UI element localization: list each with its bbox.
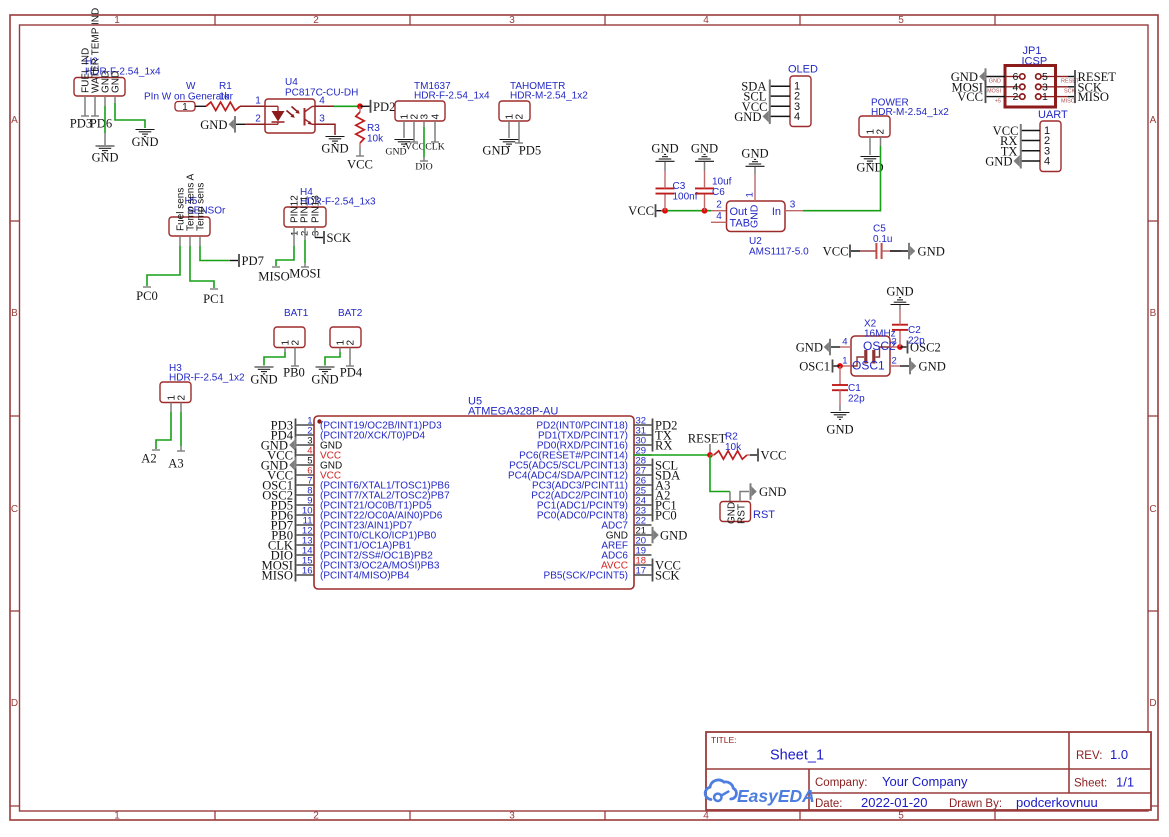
svg-text:Date:: Date: bbox=[815, 798, 843, 810]
JP1 pin number 2 bbox=[1012, 91, 1018, 103]
X2 pin number 3 bbox=[892, 337, 897, 348]
U5 pin name (PCINT21/OC0B/T1)PD5 bbox=[320, 501, 432, 512]
svg-text:RST: RST bbox=[753, 509, 775, 521]
connector POWER bbox=[859, 116, 890, 137]
svg-text:1.0: 1.0 bbox=[1110, 747, 1128, 762]
svg-text:D: D bbox=[1149, 698, 1156, 709]
connector TM1637 bbox=[395, 101, 445, 121]
label 10k bbox=[725, 442, 742, 453]
svg-text:4: 4 bbox=[794, 111, 800, 123]
net label RX bbox=[1000, 134, 1018, 148]
svg-text:C6: C6 bbox=[712, 187, 725, 198]
wire bbox=[423, 127, 425, 157]
port VCC bbox=[267, 469, 296, 483]
svg-text:C5: C5 bbox=[873, 224, 886, 235]
port VCC bbox=[652, 559, 681, 573]
svg-text:GND: GND bbox=[660, 529, 687, 543]
label AMS1117-5.0 bbox=[749, 247, 809, 258]
TM1637 pin number 1 bbox=[400, 114, 411, 120]
U2 pin name TAB bbox=[730, 218, 751, 230]
svg-text:4: 4 bbox=[703, 15, 709, 26]
resistor R3 bbox=[356, 106, 364, 147]
svg-text:podcerkovnuu: podcerkovnuu bbox=[1016, 795, 1098, 810]
label HDR-M-2.54_1x2 bbox=[871, 107, 949, 118]
port PD2 bbox=[370, 100, 396, 114]
U2 pin number 4 bbox=[716, 211, 722, 222]
net label VCC bbox=[405, 142, 425, 153]
OLED pin 2 bbox=[771, 95, 791, 97]
ground bbox=[826, 413, 853, 437]
H4 pin name PIN13 bbox=[311, 195, 322, 223]
BAT2 pin 2 bbox=[349, 348, 351, 367]
connector H4 bbox=[284, 207, 326, 227]
H4 pin 1 bbox=[293, 227, 295, 246]
wire bbox=[834, 365, 841, 367]
label BAT1 bbox=[284, 308, 309, 319]
port VCC bbox=[757, 449, 786, 463]
U5 pin name ADC6 bbox=[601, 551, 628, 562]
svg-text:TAB: TAB bbox=[730, 218, 751, 230]
U5 pin 24 bbox=[634, 504, 652, 506]
port bar UART bbox=[1020, 124, 1022, 169]
UART pin 4 bbox=[1022, 160, 1041, 162]
connector RST bbox=[720, 502, 751, 522]
POWER pin 2 bbox=[880, 137, 882, 146]
resistor R1 bbox=[206, 102, 240, 110]
label C1 bbox=[848, 383, 861, 394]
label RST bbox=[753, 509, 775, 521]
U5 pin number 1 bbox=[307, 416, 312, 427]
svg-text:VCC: VCC bbox=[405, 142, 425, 153]
svg-text:GND: GND bbox=[918, 245, 945, 259]
port VCC bbox=[957, 90, 986, 104]
connector JP1 ICSP bbox=[1005, 66, 1056, 108]
resistor R2 bbox=[710, 451, 750, 459]
net label MISO bbox=[258, 267, 290, 284]
OLED pin number 4 bbox=[794, 111, 800, 123]
net name SCK small bbox=[1064, 89, 1076, 95]
ground bbox=[132, 130, 159, 150]
H5 pin name Temp sens bbox=[196, 183, 207, 231]
svg-text:VCC: VCC bbox=[957, 90, 983, 104]
ground GND at U5 pin 5 bbox=[261, 457, 297, 474]
label U5 bbox=[468, 396, 482, 408]
U2 pin 4 TAB bbox=[711, 221, 727, 223]
svg-text:SCK: SCK bbox=[655, 569, 680, 583]
svg-text:3: 3 bbox=[790, 200, 796, 211]
H3 pin 1 bbox=[170, 403, 172, 413]
U5 pin 25 bbox=[634, 494, 652, 496]
svg-text:ATMEGA328P-AU: ATMEGA328P-AU bbox=[468, 406, 558, 418]
U5 pin name (PCINT1/OC1A)PB1 bbox=[320, 541, 412, 552]
U5 pin 12 bbox=[297, 534, 315, 536]
label TM1637 bbox=[414, 81, 451, 92]
svg-text:D: D bbox=[11, 698, 18, 709]
svg-text:1: 1 bbox=[1042, 91, 1048, 103]
U5 pin name PC0(ADC0/PCINT8) bbox=[537, 511, 628, 522]
svg-text:2022-01-20: 2022-01-20 bbox=[861, 795, 928, 810]
U5 pin name VCC bbox=[320, 451, 341, 462]
U5 pin 32 bbox=[634, 424, 652, 426]
capacitor C3 bbox=[656, 171, 675, 211]
port VCC bbox=[823, 245, 851, 259]
svg-text:1: 1 bbox=[114, 810, 120, 821]
svg-text:GND: GND bbox=[989, 78, 1001, 84]
svg-text:MISO: MISO bbox=[262, 569, 294, 583]
svg-text:1: 1 bbox=[255, 96, 261, 107]
svg-text:Your Company: Your Company bbox=[882, 774, 968, 789]
X2 pin 4 wire bbox=[831, 346, 851, 348]
U2 pin name GND bbox=[749, 204, 761, 228]
ground GND at RST bbox=[750, 483, 787, 500]
U5 pin number 20 bbox=[636, 536, 647, 547]
U2 pin name Out bbox=[730, 206, 748, 218]
label JP1 bbox=[1023, 45, 1042, 57]
label UART bbox=[1038, 109, 1068, 121]
svg-text:MOSI: MOSI bbox=[289, 267, 321, 281]
label 16MHz bbox=[864, 329, 896, 340]
svg-text:VCC: VCC bbox=[628, 204, 654, 218]
OLED pin number 2 bbox=[794, 91, 800, 103]
H2 pin 3 bbox=[104, 96, 106, 106]
svg-text:DIO: DIO bbox=[415, 162, 432, 173]
label C2 bbox=[908, 325, 921, 336]
X2 pin 2 wire bbox=[890, 365, 909, 367]
H4 pin number 3 bbox=[311, 231, 322, 236]
svg-text:(PCINT4/MISO)PB4: (PCINT4/MISO)PB4 bbox=[320, 571, 410, 582]
label HDR-F-2.54_1x4 bbox=[414, 91, 490, 102]
wire bbox=[104, 106, 106, 133]
wire bbox=[334, 105, 360, 107]
svg-text:OSC1: OSC1 bbox=[852, 359, 885, 373]
label 10k bbox=[367, 134, 384, 145]
net label SDA bbox=[741, 80, 766, 94]
svg-text:MISO: MISO bbox=[258, 270, 290, 284]
svg-text:4: 4 bbox=[703, 810, 709, 821]
U5 pin number 7 bbox=[307, 476, 312, 487]
port PC0 bbox=[652, 509, 677, 523]
U5 pin 9 bbox=[297, 504, 315, 506]
TM1637 pin number 4 bbox=[431, 114, 442, 120]
label ATMEGA328P-AU bbox=[468, 406, 558, 418]
U5 pin number 23 bbox=[636, 506, 647, 517]
connector BAT2 bbox=[330, 327, 361, 348]
H3 pin number 2 bbox=[177, 395, 188, 401]
U5 pin number 4 bbox=[307, 446, 312, 457]
label ICSP bbox=[1022, 56, 1048, 68]
U5 pin 15 bbox=[297, 564, 315, 566]
JP1 pin number 6 bbox=[1012, 71, 1018, 83]
svg-text:GND: GND bbox=[985, 155, 1012, 169]
U5 pin number 32 bbox=[636, 416, 647, 427]
net label DIO bbox=[415, 161, 432, 173]
wire bbox=[729, 492, 731, 502]
X2 pin number 2 bbox=[892, 356, 897, 367]
port MISO bbox=[1074, 90, 1109, 104]
U2 pin 3 In bbox=[785, 210, 803, 212]
svg-text:1: 1 bbox=[745, 192, 756, 197]
ground bbox=[691, 142, 718, 162]
net label TX bbox=[1001, 144, 1018, 158]
OLED pin 4 bbox=[771, 115, 791, 117]
BAT1 pin number 2 bbox=[291, 340, 302, 346]
U5 pin number 16 bbox=[302, 566, 313, 577]
svg-text:RX: RX bbox=[655, 439, 673, 453]
svg-text:PB0: PB0 bbox=[283, 366, 305, 380]
IC U5 ATMEGA328P-AU bbox=[314, 416, 634, 589]
svg-text:1: 1 bbox=[842, 356, 847, 367]
U5 pin 13 bbox=[297, 544, 315, 546]
ground bbox=[741, 147, 768, 167]
svg-text:GND: GND bbox=[886, 285, 913, 299]
svg-text:3: 3 bbox=[509, 15, 515, 26]
net label VCC bbox=[347, 156, 373, 172]
svg-text:GND: GND bbox=[741, 147, 768, 161]
crystal X2 16MHz bbox=[851, 336, 890, 376]
svg-text:GND: GND bbox=[734, 110, 761, 124]
ground bbox=[311, 367, 338, 387]
U5 pin 3 bbox=[297, 444, 315, 446]
port CLK bbox=[268, 539, 297, 553]
U5 pin name (PCINT20/XCK/T0)PD4 bbox=[320, 431, 425, 442]
svg-text:EasyEDA: EasyEDA bbox=[737, 786, 815, 806]
JP1 pin 2 wire bbox=[987, 96, 1006, 98]
U4 pin number 4 bbox=[319, 96, 325, 107]
U5 pin 10 bbox=[297, 514, 315, 516]
BAT2 pin number 2 bbox=[346, 340, 357, 346]
label H2 bbox=[85, 57, 98, 68]
TAHOMETR pin 1 bbox=[508, 121, 510, 138]
svg-text:10k: 10k bbox=[725, 442, 742, 453]
wire bbox=[423, 157, 425, 161]
capacitor C6 bbox=[695, 171, 714, 211]
label U2 bbox=[749, 236, 762, 247]
port VCC bbox=[628, 204, 656, 218]
U5 pin name (PCINT2/SS#/OC1B)PB2 bbox=[320, 551, 433, 562]
wire bbox=[304, 240, 306, 267]
label C6 bbox=[712, 187, 725, 198]
svg-text:4: 4 bbox=[716, 211, 722, 222]
capacitor C1 bbox=[832, 366, 848, 405]
svg-text:Temp sens: Temp sens bbox=[196, 183, 207, 231]
U5 pin 16 bbox=[297, 574, 315, 576]
U5 pin 11 bbox=[297, 524, 315, 526]
U5 pin number 19 bbox=[636, 546, 647, 557]
U5 pin number 11 bbox=[303, 516, 313, 527]
port OSC2 bbox=[262, 489, 296, 503]
svg-text:2: 2 bbox=[291, 340, 302, 346]
H5 pin 2 bbox=[189, 236, 191, 246]
svg-text:Drawn By:: Drawn By: bbox=[949, 798, 1002, 810]
EasyEDA logo bbox=[705, 780, 815, 806]
port PD5 bbox=[271, 499, 297, 513]
U5 pin name AREF bbox=[601, 541, 628, 552]
ground GND at U5 pin 21 bbox=[652, 527, 688, 544]
label POWER bbox=[871, 98, 909, 109]
U5 pin name GND bbox=[320, 461, 342, 472]
port PB0 bbox=[271, 529, 296, 543]
U5 pin name VCC bbox=[320, 471, 341, 482]
OLED pin 3 bbox=[771, 105, 791, 107]
wire bbox=[664, 162, 666, 171]
U5 pin name (PCINT22/OC0A/AIN0)PD6 bbox=[320, 511, 443, 522]
label PIn W on Generator bbox=[144, 92, 234, 103]
wire bbox=[711, 210, 727, 212]
TM1637 pin number 3 bbox=[420, 114, 431, 120]
svg-text:5: 5 bbox=[898, 15, 904, 26]
svg-text:MOSI: MOSI bbox=[987, 89, 1002, 95]
connector OLED bbox=[790, 76, 811, 127]
net label CLK bbox=[425, 142, 445, 153]
wire bbox=[315, 105, 334, 107]
svg-text:VCC: VCC bbox=[761, 449, 787, 463]
wire bbox=[315, 124, 335, 135]
wire bbox=[359, 147, 361, 156]
port SCL bbox=[652, 459, 679, 473]
port RX bbox=[652, 439, 673, 453]
net label SCL bbox=[743, 90, 766, 104]
port A3 bbox=[652, 479, 671, 493]
wire bbox=[104, 133, 106, 145]
svg-text:SCK: SCK bbox=[1064, 89, 1076, 95]
U5 pin 1 marker bbox=[317, 419, 321, 423]
svg-text:HDR-M-2.54_1x2: HDR-M-2.54_1x2 bbox=[871, 107, 949, 118]
port bar OLED bbox=[769, 80, 771, 125]
U5 pin name (PCINT4/MISO)PB4 bbox=[320, 571, 410, 582]
U5 pin name (PCINT23/AIN1)PD7 bbox=[320, 521, 413, 532]
svg-text:PD7: PD7 bbox=[242, 254, 264, 268]
svg-text:2: 2 bbox=[177, 395, 188, 401]
U5 pin 5 bbox=[297, 464, 315, 466]
port PC1 bbox=[652, 499, 677, 513]
net label PC1 bbox=[203, 289, 225, 306]
svg-text:CLK: CLK bbox=[425, 142, 445, 153]
label HDR-M-2.54_1x2 bbox=[510, 91, 588, 102]
U5 pin number 22 bbox=[636, 516, 647, 527]
svg-text:U4: U4 bbox=[285, 77, 298, 88]
label HDR-F-2.54_1x3 bbox=[300, 197, 376, 208]
U5 pin name PD2(INT0/PCINT18) bbox=[536, 421, 628, 432]
U5 pin number 26 bbox=[636, 476, 647, 487]
svg-text:VCC: VCC bbox=[823, 245, 849, 259]
RST pin 2 bbox=[740, 492, 749, 502]
ground bbox=[385, 140, 413, 158]
svg-text:VCC: VCC bbox=[347, 158, 373, 172]
port W bbox=[175, 102, 195, 114]
U5 pin name GND bbox=[320, 441, 342, 452]
H4 pin name PIN12 bbox=[290, 195, 301, 223]
port MOSI bbox=[262, 559, 297, 573]
svg-text:2: 2 bbox=[876, 129, 887, 135]
ground GND at OLED pin 4 bbox=[734, 110, 769, 124]
ground GND at C5 bbox=[908, 243, 945, 259]
svg-text:Sheet:: Sheet: bbox=[1074, 778, 1107, 790]
U5 pin name PD1(TXD/PCINT17) bbox=[538, 431, 628, 442]
node junction OSC1 bbox=[837, 363, 843, 369]
port PD4 bbox=[271, 429, 297, 443]
svg-text:2: 2 bbox=[346, 340, 357, 346]
net label PB0 bbox=[283, 366, 305, 380]
U5 pin number 10 bbox=[302, 506, 313, 517]
U5 pin number 9 bbox=[307, 496, 312, 507]
svg-text:MISO: MISO bbox=[1078, 90, 1110, 104]
ground bbox=[651, 142, 678, 162]
H2 pin name FUEL IND bbox=[81, 48, 92, 93]
svg-text:4: 4 bbox=[842, 337, 847, 348]
label 100nf bbox=[673, 192, 698, 203]
svg-text:In: In bbox=[772, 206, 781, 218]
svg-text:RESET: RESET bbox=[688, 432, 727, 446]
U4 pin number 3 bbox=[319, 114, 325, 125]
svg-text:GND: GND bbox=[321, 142, 348, 156]
wire bbox=[360, 105, 370, 107]
U5 pin number 27 bbox=[636, 466, 647, 477]
U4 pin number 2 bbox=[255, 114, 261, 125]
net label MOSI bbox=[289, 267, 321, 281]
svg-text:4: 4 bbox=[1044, 156, 1050, 168]
BAT2 pin number 1 bbox=[336, 340, 347, 346]
UART pin number 1 bbox=[1044, 125, 1050, 137]
U5 pin 7 bbox=[297, 484, 315, 486]
BAT2 pin 1 bbox=[339, 348, 341, 353]
svg-text:GND: GND bbox=[111, 71, 122, 93]
svg-text:A3: A3 bbox=[168, 457, 183, 471]
U5 pin name PC1(ADC1/PCINT9) bbox=[537, 501, 628, 512]
H4 pin number 2 bbox=[300, 231, 311, 236]
svg-text:GND: GND bbox=[691, 142, 718, 156]
port MISO bbox=[262, 569, 297, 583]
connector H2 bbox=[74, 78, 125, 97]
U5 pin number 17 bbox=[636, 566, 647, 577]
U5 pin number 28 bbox=[636, 456, 647, 467]
connector UART bbox=[1040, 121, 1061, 172]
X2 pin 1 wire bbox=[840, 365, 851, 367]
U5 pin 22 bbox=[634, 524, 652, 526]
svg-text:PIN11: PIN11 bbox=[300, 196, 311, 223]
net label OSC1 blue bbox=[852, 359, 885, 373]
U5 pin 23 bbox=[634, 514, 652, 516]
svg-text:PD4: PD4 bbox=[340, 366, 363, 380]
svg-text:3: 3 bbox=[319, 114, 325, 125]
svg-text:3: 3 bbox=[420, 114, 431, 120]
U5 pin name PC2(ADC2/PCINT10) bbox=[531, 491, 628, 502]
U5 pin name PC4(ADC4/SDA/PCINT12) bbox=[508, 471, 628, 482]
svg-text:C2: C2 bbox=[908, 325, 921, 336]
net name GND small bbox=[989, 78, 1001, 84]
svg-text:GND: GND bbox=[919, 360, 946, 374]
label 10uf bbox=[712, 177, 732, 188]
node PD2 junction bbox=[357, 103, 363, 109]
X2 pin number 1 bbox=[842, 356, 847, 367]
UART pin 2 bbox=[1022, 140, 1041, 142]
U5 pin 6 bbox=[297, 474, 315, 476]
U5 pin number 13 bbox=[302, 536, 313, 547]
label H5 bbox=[185, 196, 198, 207]
X2 pin 3 wire bbox=[890, 346, 900, 348]
svg-text:R1: R1 bbox=[219, 81, 232, 92]
U2 pin 1 GND bbox=[754, 167, 756, 201]
JP1 pin number 4 bbox=[1012, 81, 1018, 93]
H4 pin name PIN11 bbox=[300, 196, 311, 223]
svg-text:4: 4 bbox=[431, 114, 442, 120]
svg-text:GND: GND bbox=[651, 142, 678, 156]
net label PD5 bbox=[515, 143, 541, 158]
net label VCC bbox=[742, 100, 768, 114]
wire bbox=[180, 412, 182, 451]
POWER pin number 2 bbox=[876, 129, 887, 135]
BAT1 pin 2 bbox=[294, 348, 296, 367]
label 22p bbox=[908, 336, 925, 347]
